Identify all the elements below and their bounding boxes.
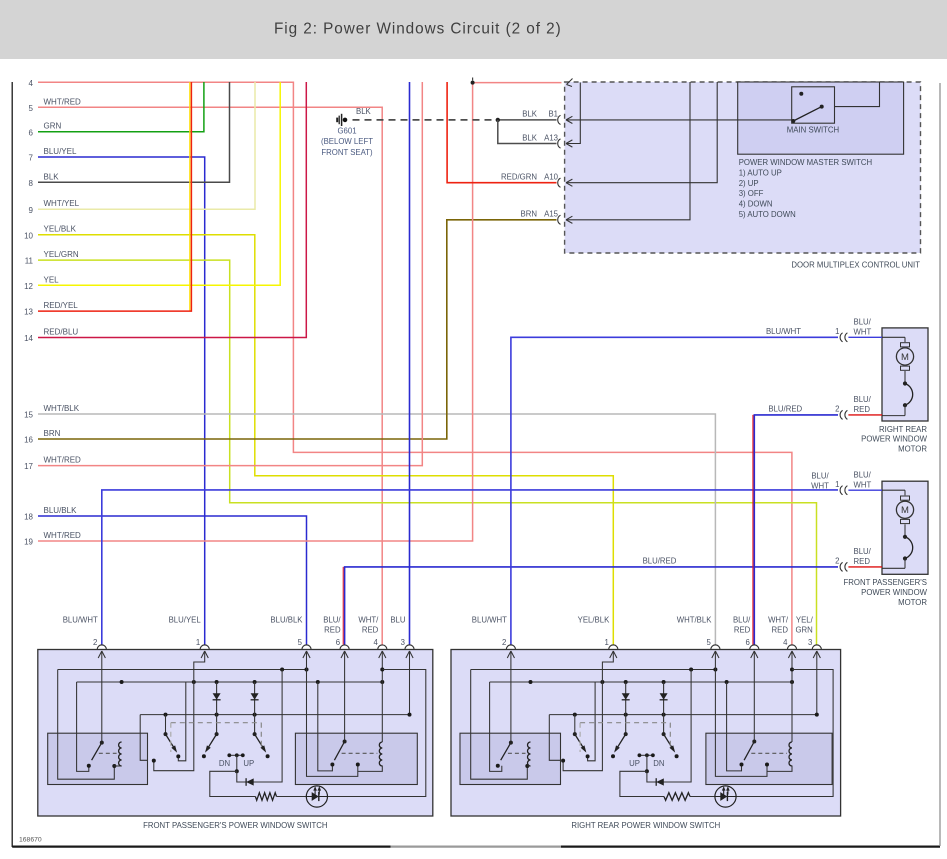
top-left corner entry arrow (567, 79, 573, 85)
right rear power window motor (882, 328, 928, 421)
wire A10 up to top edge (566, 82, 717, 183)
junction dot BLK (496, 118, 500, 122)
relay coil (379, 742, 382, 766)
bus H2 (coil bus) (490, 681, 792, 683)
wire BLU/RED front passenger: left switch pin 6 up then across to motor pin 2 (342, 567, 344, 645)
bus H3 (lever bus) (140, 714, 409, 716)
wire 12 YEL: row 12 right then up to top edge (38, 82, 280, 285)
bus H2 left leg to relay contact (490, 682, 502, 771)
svg-text:BLK: BLK (356, 107, 372, 116)
svg-text:M: M (901, 505, 909, 516)
svg-text:1: 1 (604, 638, 608, 647)
relay mechanical link dashed (508, 752, 526, 754)
relay coil (119, 742, 122, 766)
svg-text:DN: DN (653, 759, 664, 768)
wire 5 WHT/RED: row 5 right then down to left switch pin 4 (38, 107, 382, 644)
wire BLU: top edge down to left switch pin 3 (409, 82, 411, 645)
svg-text:FRONT PASSENGER'S: FRONT PASSENGER'S (843, 578, 927, 587)
svg-text:10: 10 (24, 231, 33, 240)
svg-text:BLK: BLK (522, 133, 538, 142)
relay box (motor-up relay) (48, 733, 148, 784)
svg-text:3: 3 (808, 638, 812, 647)
svg-text:UP: UP (243, 759, 254, 768)
relay coil bottom lead (114, 765, 121, 767)
relay switch (343, 740, 347, 744)
svg-text:YEL/GRN: YEL/GRN (44, 250, 79, 259)
svg-text:G601: G601 (337, 127, 356, 136)
svg-text:RED/YEL: RED/YEL (44, 301, 79, 310)
wire B1 to main switch pivot (566, 119, 793, 121)
pin 3 stem to H3 (816, 651, 818, 715)
switch pin 2 entry (BLU/WHT) (97, 645, 106, 650)
wire 16 BRN: row 16 right, up, right to connector A15 (38, 220, 557, 439)
bus H3 (lever bus) (549, 714, 817, 716)
pin 4 stem to coil (791, 651, 793, 742)
svg-text:19: 19 (24, 538, 33, 547)
wire BLK dashed: ground G601 to junction (353, 119, 498, 121)
lever A contact feed from H2 (588, 682, 596, 761)
wire 11 YEL/GRN: row 11 right, down, across, down to right switch pin 3 (38, 260, 817, 644)
svg-text:17: 17 (24, 462, 33, 471)
svg-text:18: 18 (24, 513, 33, 522)
svg-text:13: 13 (24, 308, 33, 317)
svg-text:A13: A13 (544, 133, 558, 142)
lever A contact feed from H2 (178, 682, 186, 761)
svg-text:6: 6 (745, 638, 749, 647)
relay coil bottom lead (767, 766, 792, 772)
path from common to lamp line (210, 771, 256, 796)
svg-text:GRN: GRN (795, 626, 812, 635)
svg-text:POWER WINDOW: POWER WINDOW (861, 588, 927, 597)
connector A15 (558, 215, 561, 224)
svg-text:RED/BLU: RED/BLU (44, 328, 79, 337)
svg-text:WHT/: WHT/ (768, 616, 789, 625)
svg-text:BLU/BLK: BLU/BLK (44, 506, 78, 515)
diode D2 from H2 to H3 (254, 682, 256, 734)
relay box (motor-down relay) (295, 733, 417, 784)
svg-text:4: 4 (29, 79, 34, 88)
svg-text:BLU/: BLU/ (854, 470, 872, 479)
svg-text:RIGHT REAR POWER WINDOW SWITCH: RIGHT REAR POWER WINDOW SWITCH (571, 821, 720, 830)
svg-text:5: 5 (29, 104, 34, 113)
window lever A (165, 715, 167, 735)
wire 7 BLU/YEL: row 7 right then down to left switch pin 1 (38, 157, 205, 645)
svg-text:WHT: WHT (811, 482, 829, 491)
pin 2 stem to relay pivot (101, 651, 103, 743)
svg-text:2: 2 (835, 557, 839, 566)
svg-text:YEL/: YEL/ (796, 616, 814, 625)
svg-text:BLU/: BLU/ (854, 317, 872, 326)
svg-text:RED/GRN: RED/GRN (501, 173, 537, 182)
DN/UP common contact group (639, 754, 653, 756)
svg-text:Fig 2: Power Windows Circuit (: Fig 2: Power Windows Circuit (2 of 2) (274, 21, 562, 38)
svg-text:12: 12 (24, 282, 33, 291)
svg-text:BLU/: BLU/ (733, 616, 751, 625)
junction dot on WHT/RED at top corner (471, 81, 475, 85)
wire 10 YEL/BLK: row 10 right, down, across, down to right switch pin 1 (38, 235, 613, 645)
switch pin 5 entry (BLU/BLK) (302, 645, 311, 650)
svg-text:BLU/: BLU/ (323, 616, 341, 625)
pin 6 stem to relay pivot (344, 651, 346, 742)
illumination LED (715, 786, 736, 807)
svg-text:RED: RED (734, 626, 751, 635)
lamp feed vertical from H2 (318, 682, 333, 771)
svg-text:BLU/: BLU/ (811, 471, 829, 480)
diode D3 to contact bus (237, 670, 282, 783)
svg-text:GRN: GRN (44, 122, 62, 131)
svg-text:B1: B1 (548, 110, 558, 119)
switch pin 1 entry (YEL/BLK) (609, 645, 618, 650)
svg-text:BLU/RED: BLU/RED (643, 556, 677, 565)
pin 4 illumination jog down right side to LED (736, 670, 833, 797)
wire BLU/RED right rear: motor pin 2 left then down to right switch pin 6 (752, 415, 754, 645)
svg-text:4: 4 (373, 638, 378, 647)
svg-text:6: 6 (336, 638, 340, 647)
svg-text:BRN: BRN (521, 210, 537, 219)
svg-text:BLU/WHT: BLU/WHT (766, 327, 801, 336)
wire BLU/WHT right rear: right switch pin 2 up then across to motor pin 1 (511, 337, 838, 644)
diode D1 from H2 to H3 (216, 682, 218, 734)
right rear motor connector pin 1 (840, 333, 842, 342)
svg-text:MOTOR: MOTOR (898, 598, 927, 607)
wire 6 GRN: row 6 right then up to top edge (38, 82, 204, 132)
svg-text:5: 5 (298, 638, 303, 647)
relay mechanical link dashed (342, 752, 378, 754)
svg-text:RED: RED (324, 626, 341, 635)
connector A13 (558, 139, 561, 148)
wire BLK: junction to connector B1 (498, 119, 557, 121)
window lever A (574, 715, 576, 735)
svg-text:POWER WINDOW: POWER WINDOW (861, 435, 927, 444)
svg-text:15: 15 (24, 411, 33, 420)
svg-text:UP: UP (629, 759, 640, 768)
relay mechanical link dashed (99, 752, 117, 754)
svg-text:6: 6 (29, 128, 34, 137)
right rear power window switch box (451, 650, 841, 817)
bus H3 left leg (140, 715, 147, 761)
wire 4 WHT/RED: row 4 right, down, across, down to right switch pin 4 (38, 82, 792, 644)
illumination LED (306, 786, 327, 807)
svg-text:WHT/YEL: WHT/YEL (44, 199, 80, 208)
main switch box (792, 87, 835, 123)
svg-text:3: 3 (401, 638, 405, 647)
svg-text:4) DOWN: 4) DOWN (739, 200, 773, 209)
svg-text:M: M (901, 352, 909, 363)
svg-text:RED: RED (362, 626, 379, 635)
svg-text:2: 2 (93, 638, 97, 647)
connector A10 (558, 178, 561, 187)
svg-text:2) UP: 2) UP (739, 179, 759, 188)
svg-text:WHT/RED: WHT/RED (44, 97, 82, 106)
svg-text:5) AUTO DOWN: 5) AUTO DOWN (739, 210, 796, 219)
svg-text:WHT/RED: WHT/RED (44, 531, 82, 540)
svg-text:(BELOW LEFT: (BELOW LEFT (321, 137, 373, 146)
svg-text:BLU/YEL: BLU/YEL (44, 147, 77, 156)
wire A15 up to top edge (566, 82, 690, 220)
svg-text:YEL/BLK: YEL/BLK (44, 225, 77, 234)
svg-text:YEL: YEL (44, 275, 60, 284)
svg-text:BLU/BLK: BLU/BLK (270, 616, 303, 625)
diagram frame left border (11, 82, 13, 847)
wire 19 WHT/RED: row 19 right, up, right into control unit top corner (38, 83, 562, 541)
bus H3 left leg (549, 715, 560, 761)
wire 8 BLK: row 8 right then up to top edge (38, 82, 230, 182)
svg-text:11: 11 (25, 257, 34, 266)
DN/UP common contact group (229, 754, 243, 756)
svg-text:MOTOR: MOTOR (898, 445, 927, 454)
wire 9 WHT/YEL: row 9 right then up to top edge (38, 82, 255, 209)
lamp feed vertical from H2 (727, 682, 742, 771)
pin 1 stem jog to H2 and down-left (563, 651, 613, 771)
svg-text:BLU/YEL: BLU/YEL (169, 616, 202, 625)
right rear motor connector pin 2 (840, 410, 843, 419)
diagram frame bottom border (12, 845, 390, 847)
switch pin 2 entry (BLU/WHT) (506, 645, 515, 650)
svg-text:DOOR MULTIPLEX CONTROL UNIT: DOOR MULTIPLEX CONTROL UNIT (791, 261, 920, 270)
svg-text:WHT/: WHT/ (358, 616, 379, 625)
switch pin 1 entry (BLU/YEL) (200, 645, 209, 650)
resistor (255, 793, 276, 801)
svg-text:FRONT PASSENGER'S POWER WINDOW: FRONT PASSENGER'S POWER WINDOW SWITCH (143, 821, 327, 830)
svg-text:WHT/BLK: WHT/BLK (44, 404, 80, 413)
svg-text:WHT: WHT (854, 327, 872, 336)
switch pin 4 entry (WHT/) (787, 645, 796, 650)
switch pin 5 entry (WHT/BLK) (711, 645, 720, 650)
window lever B (624, 732, 628, 736)
svg-text:YEL/BLK: YEL/BLK (578, 616, 610, 625)
pin 6 stem to relay pivot (753, 651, 755, 742)
svg-text:RED: RED (854, 557, 871, 566)
ground G601 symbol (343, 118, 348, 123)
svg-text:RED: RED (772, 626, 789, 635)
svg-text:1: 1 (835, 480, 839, 489)
wire 13 RED/YEL: row 13 right then up to top edge (yellow companion) (189, 82, 191, 311)
svg-text:BLU/RED: BLU/RED (768, 404, 802, 413)
svg-text:MAIN SWITCH: MAIN SWITCH (787, 126, 839, 135)
svg-text:BRN: BRN (44, 429, 61, 438)
relay mechanical link dashed (751, 752, 787, 754)
svg-text:8: 8 (29, 179, 34, 188)
pin 5 stem through H1 down and right (307, 651, 358, 776)
svg-text:1: 1 (196, 638, 200, 647)
diagram frame right border (939, 83, 941, 846)
svg-text:WHT/BLK: WHT/BLK (677, 616, 712, 625)
wire RED/GRN: top edge down then right to connector A10 (447, 82, 556, 183)
relay coil (528, 742, 531, 766)
svg-text:WHT: WHT (854, 480, 872, 489)
svg-text:4: 4 (783, 638, 788, 647)
svg-text:168670: 168670 (19, 837, 42, 844)
relay box (motor-up relay) (460, 733, 561, 784)
main switch lever and contacts (791, 119, 795, 123)
svg-text:POWER WINDOW MASTER SWITCH: POWER WINDOW MASTER SWITCH (739, 158, 872, 167)
svg-text:BLU/: BLU/ (854, 547, 872, 556)
svg-text:3) OFF: 3) OFF (739, 189, 764, 198)
switch pin 3 entry (YEL/) (812, 645, 821, 650)
svg-text:DN: DN (219, 759, 230, 768)
wire BLU/WHT front passenger: left switch pin 2 up then across to motor pin 1 (102, 490, 838, 645)
door multiplex control unit box (565, 82, 921, 253)
svg-text:2: 2 (835, 405, 839, 414)
svg-text:BLU: BLU (390, 616, 406, 625)
svg-text:2: 2 (502, 638, 506, 647)
bus H1 (contact bus) (58, 669, 307, 671)
mechanical link dashed rectangle (171, 722, 261, 724)
bus H1 left leg to relay (58, 670, 115, 780)
svg-text:A10: A10 (544, 173, 559, 182)
title banner (0, 0, 947, 59)
diode D3 to contact bus (647, 670, 691, 783)
svg-text:1) AUTO UP: 1) AUTO UP (739, 168, 782, 177)
relay coil (789, 742, 792, 766)
pin 3 stem to H3 (409, 651, 411, 715)
window lever C (662, 732, 666, 736)
svg-text:7: 7 (29, 154, 34, 163)
wire 14 RED/BLU: row 14 right then up to top edge (38, 82, 306, 338)
pin 1 stem jog to H2 and down-left (154, 651, 205, 771)
switch pin 3 entry (BLU) (405, 645, 414, 650)
relay switch (509, 741, 513, 745)
svg-text:14: 14 (24, 334, 33, 343)
path from common to lamp line (620, 771, 664, 796)
bus H1 left leg to relay (471, 670, 528, 780)
svg-text:BLK: BLK (522, 110, 538, 119)
svg-text:FRONT SEAT): FRONT SEAT) (321, 148, 373, 157)
relay box (motor-down relay) (706, 733, 832, 784)
wire resistor to LED (690, 796, 715, 798)
svg-text:BLU/WHT: BLU/WHT (472, 616, 507, 625)
svg-text:A15: A15 (544, 210, 559, 219)
front passenger motor connector pin 2 (840, 562, 843, 571)
bus H1 (contact bus) (471, 669, 716, 671)
connector B1 (558, 115, 561, 124)
mechanical link dashed rectangle (580, 722, 670, 724)
wire 15 WHT/BLK: row 15 across then down to right switch pin 5 (38, 414, 715, 645)
window lever B (215, 732, 219, 736)
window lever C (253, 732, 257, 736)
relay switch (100, 741, 104, 745)
wire 17 WHT/RED: row 17 right then up to top edge (38, 82, 422, 466)
pin 4 stem to coil (381, 651, 383, 742)
front passenger's power window switch box (38, 650, 433, 817)
pin 4 illumination jog down right side to LED (328, 670, 426, 797)
relay coil bottom lead (527, 765, 530, 767)
bus H2 left leg to relay contact (77, 682, 89, 771)
svg-text:5: 5 (707, 638, 712, 647)
front passenger power window motor (882, 481, 928, 574)
power window master switch sub-box (738, 82, 904, 154)
wire A13 up to top corner entry (566, 83, 580, 144)
svg-text:1: 1 (835, 327, 839, 336)
pin 5 stem through H1 down and right (715, 651, 767, 776)
resistor (664, 793, 690, 801)
svg-text:9: 9 (29, 206, 34, 215)
svg-text:WHT/RED: WHT/RED (44, 456, 82, 465)
svg-text:BLU/WHT: BLU/WHT (63, 616, 98, 625)
diode D2 from H2 to H3 (663, 682, 665, 734)
relay coil bottom lead (358, 766, 383, 772)
switch pin 6 entry (BLU/) (340, 645, 349, 650)
diode D1 from H2 to H3 (625, 682, 627, 734)
wire BLK branch: junction down then right to connector A13 (498, 120, 557, 144)
switch pin 4 entry (WHT/) (378, 645, 387, 650)
svg-text:BLU/: BLU/ (854, 395, 872, 404)
svg-text:RIGHT REAR: RIGHT REAR (879, 425, 927, 434)
wire 18 BLU/BLK: row 18 right then down to left switch pin 5 (38, 516, 307, 645)
svg-text:BLK: BLK (44, 172, 60, 181)
pin 2 stem to relay pivot (510, 651, 512, 743)
svg-text:16: 16 (24, 436, 33, 445)
front passenger motor connector pin 1 (840, 486, 843, 495)
wire resistor to LED (277, 796, 307, 798)
switch pin 6 entry (BLU/) (750, 645, 759, 650)
svg-text:RED: RED (854, 405, 871, 414)
bus H2 (coil bus) (77, 681, 383, 683)
relay switch (752, 740, 756, 744)
wire from main switch to top edge (835, 82, 880, 107)
